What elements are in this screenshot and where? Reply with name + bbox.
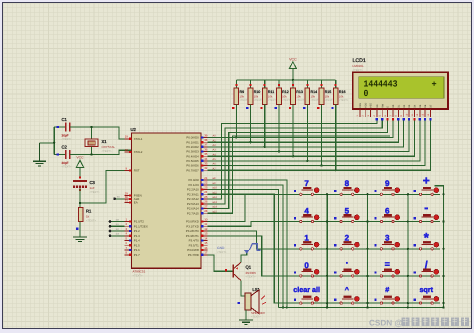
svg-text:<TEXT>: <TEXT> (217, 251, 227, 254)
svg-text:EA: EA (134, 201, 138, 205)
wire (109, 233, 125, 238)
resistor R15 (317, 80, 334, 110)
capacitor C2 (57, 145, 72, 169)
svg-text:23: 23 (204, 185, 208, 189)
svg-text:1: 1 (304, 234, 309, 243)
capacitor C3 (73, 177, 100, 194)
svg-text:17: 17 (204, 251, 208, 255)
wire (397, 118, 399, 120)
node A14 (213, 206, 218, 209)
svg-text:10: 10 (204, 217, 208, 221)
svg-text:A0: A0 (213, 135, 217, 138)
button ^ (333, 285, 361, 304)
node A0 (213, 135, 217, 138)
wire (79, 167, 81, 178)
wire (column 4) (435, 186, 445, 309)
wire (381, 118, 383, 120)
svg-text:2: 2 (345, 234, 350, 243)
pin P3.0 (10) (186, 217, 208, 223)
svg-text:a15: a15 (213, 210, 218, 213)
svg-text:RST: RST (134, 169, 140, 173)
svg-text:22: 22 (204, 181, 208, 185)
svg-text:GND: GND (217, 246, 225, 250)
svg-text:P3.4/T0: P3.4/T0 (189, 239, 200, 243)
svg-text:P1.0/T2: P1.0/T2 (134, 220, 145, 224)
wire (109, 218, 125, 223)
resistor R11 (260, 80, 277, 110)
svg-text:2N3905: 2N3905 (246, 271, 257, 275)
svg-text:<TEXT>: <TEXT> (62, 138, 72, 141)
svg-text:=: = (385, 259, 390, 269)
op-amp U2 (MCU AT89C51 body) (131, 127, 202, 277)
node A12 (213, 196, 218, 199)
node A4 (213, 153, 217, 156)
svg-text:<TEXT>: <TEXT> (90, 191, 100, 194)
svg-text:21: 21 (204, 176, 208, 180)
svg-text:clear all: clear all (293, 285, 320, 294)
svg-text:P3.6/WR: P3.6/WR (187, 248, 199, 252)
svg-text:+: + (423, 173, 430, 187)
svg-text:25: 25 (204, 195, 208, 199)
resistor R16 (331, 80, 348, 110)
button / (412, 260, 440, 277)
wire (row 3) (208, 231, 441, 249)
svg-text:A5: A5 (213, 158, 217, 161)
svg-text:10k: 10k (268, 94, 273, 98)
pin P2.6 (27) (187, 204, 208, 210)
svg-text:P2.7/A15: P2.7/A15 (187, 211, 199, 215)
svg-text:32: 32 (204, 166, 208, 170)
wire (245, 310, 247, 320)
svg-text:11: 11 (204, 222, 207, 226)
svg-text:10k: 10k (296, 94, 301, 98)
button 4 (292, 206, 320, 222)
svg-text:U2: U2 (131, 127, 137, 132)
pin P3.6 (16) (187, 246, 208, 252)
LCD LCD1 (LM016L) (353, 58, 449, 117)
wire (column) (366, 193, 368, 309)
svg-text:P3.2/INT0: P3.2/INT0 (186, 229, 199, 233)
resistor R12 (275, 80, 292, 110)
wire (369, 318, 469, 328)
svg-text:C3: C3 (90, 180, 96, 185)
wire (419, 118, 421, 120)
pin P1.1 (2) (125, 222, 148, 228)
svg-text:10k: 10k (339, 94, 344, 98)
pin P0.3 (36) (186, 147, 207, 153)
node A6 (213, 163, 217, 166)
resistor R13 (289, 80, 306, 110)
wire (P0.5 bus) (208, 121, 420, 161)
wire (386, 118, 388, 120)
wire (113, 196, 131, 201)
svg-text:10k: 10k (282, 94, 287, 98)
wire (424, 118, 426, 120)
svg-text:10k: 10k (240, 94, 245, 98)
wire (403, 118, 405, 120)
node RST (79, 171, 132, 205)
svg-text:3: 3 (385, 234, 390, 243)
svg-text:VSS: VSS (359, 103, 362, 108)
wire (0, 0, 1, 1)
wire (LCD control) (208, 121, 388, 209)
svg-text:P1.2: P1.2 (134, 229, 140, 233)
wire (collector) (241, 280, 245, 296)
pin XTAL1 (19) (125, 135, 143, 141)
node A8 (213, 177, 216, 180)
wire (LCD control) (208, 121, 383, 204)
wire (236, 79, 335, 81)
wire (column feed P2.1) (208, 185, 285, 309)
wire (53, 127, 55, 155)
svg-text:VEE: VEE (370, 103, 373, 108)
svg-text:+: + (432, 80, 437, 90)
pin P1.7 (8) (125, 251, 141, 257)
pin RST (9) (125, 166, 140, 172)
wire (P0.7 bus) (208, 121, 431, 171)
node A2 (213, 144, 217, 147)
svg-text:VDD: VDD (364, 102, 367, 107)
svg-text:10k: 10k (325, 94, 330, 98)
svg-text:VCC: VCC (76, 156, 84, 160)
svg-text:18: 18 (125, 148, 129, 152)
wire (76, 222, 80, 237)
wire (278, 110, 280, 153)
wire (90, 147, 92, 156)
svg-text:8: 8 (345, 179, 350, 188)
pin P1.3 (4) (125, 232, 141, 238)
button 6 (373, 206, 401, 222)
svg-text:<TEXT>: <TEXT> (133, 275, 143, 278)
pin PSEN (29) (125, 191, 142, 197)
node A11 (213, 191, 218, 194)
svg-text:12: 12 (204, 227, 208, 231)
pin P1.2 (3) (125, 227, 141, 233)
svg-text:30pF: 30pF (62, 161, 69, 165)
node A9 (213, 182, 216, 185)
svg-text:P2.0/A8: P2.0/A8 (189, 178, 200, 182)
svg-text:-: - (424, 201, 428, 215)
svg-text:31: 31 (125, 198, 129, 202)
svg-text:RS: RS (376, 104, 379, 108)
pin ALE (30) (125, 195, 140, 201)
svg-text:a13: a13 (213, 201, 218, 204)
svg-text:A4: A4 (213, 153, 217, 156)
ground (239, 320, 253, 324)
svg-text:A3: A3 (213, 149, 217, 152)
wire (P0.4 bus) (208, 121, 415, 157)
svg-text:<TEXT>: <TEXT> (62, 166, 72, 169)
svg-text:P0.0/AD0: P0.0/AD0 (186, 136, 199, 140)
svg-text:R1: R1 (86, 209, 92, 214)
resistor R10 (246, 80, 263, 110)
svg-text:SPEAKER: SPEAKER (251, 311, 265, 315)
node A5 (213, 158, 217, 161)
node A3 (213, 149, 217, 152)
svg-text:P1.4: P1.4 (134, 239, 140, 243)
wire (column) (407, 193, 409, 309)
svg-text:7: 7 (304, 179, 309, 188)
pin P0.6 (33) (186, 161, 207, 167)
pin P3.3 (13) (186, 232, 208, 238)
pin P0.1 (38) (186, 138, 207, 144)
pin P0.7 (32) (186, 166, 207, 172)
svg-text:P2.6/A14: P2.6/A14 (187, 207, 199, 211)
wire (emitter) (241, 251, 247, 262)
svg-text:P2.5/A13: P2.5/A13 (187, 202, 199, 206)
svg-text:39: 39 (204, 133, 208, 137)
node A7 (213, 167, 217, 170)
svg-text:X1: X1 (102, 139, 108, 144)
svg-text:P2.2/A10: P2.2/A10 (187, 188, 199, 192)
pin P0.0 (39) (186, 133, 207, 139)
node A15 (213, 210, 218, 213)
svg-text:36: 36 (204, 147, 208, 151)
resistor R14 (303, 80, 320, 110)
svg-text:P0.5/AD5: P0.5/AD5 (186, 159, 199, 163)
svg-text:A6: A6 (213, 163, 217, 166)
svg-text:Q1: Q1 (246, 264, 252, 269)
pin P1.6 (7) (125, 246, 141, 252)
svg-text:a14: a14 (213, 206, 218, 209)
pin P0.2 (37) (186, 143, 207, 149)
transistor Q1 (232, 262, 256, 280)
pin EA (31) (125, 198, 138, 204)
wire (54, 126, 65, 128)
svg-text:16: 16 (204, 246, 208, 250)
svg-text:CRYSTAL: CRYSTAL (102, 145, 116, 149)
svg-text:15: 15 (204, 241, 208, 245)
svg-text:a12: a12 (213, 196, 218, 199)
node A10 (213, 187, 218, 190)
button 8 (333, 179, 361, 195)
button 1 (292, 234, 320, 250)
svg-text:10k: 10k (254, 94, 259, 98)
svg-text:P1.7: P1.7 (134, 253, 140, 257)
wire (P0.6 bus) (208, 121, 426, 166)
button 3 (373, 234, 401, 250)
pin P2.3 (24) (187, 190, 208, 196)
svg-text:C1: C1 (62, 117, 68, 122)
svg-text:P1.3: P1.3 (134, 234, 140, 238)
svg-text:37: 37 (204, 143, 208, 147)
svg-text:19: 19 (125, 135, 129, 139)
svg-text:XTAL1: XTAL1 (134, 137, 143, 141)
svg-text:LM016L: LM016L (353, 64, 364, 68)
svg-text:38: 38 (204, 138, 208, 142)
svg-text:30pF: 30pF (62, 133, 69, 137)
svg-text:P0.4/AD4: P0.4/AD4 (186, 154, 199, 158)
pin P1.4 (5) (125, 236, 141, 242)
svg-text:P3.0/RXD: P3.0/RXD (186, 220, 199, 224)
svg-text:34: 34 (204, 157, 208, 161)
pin P3.5 (15) (189, 241, 208, 247)
svg-text:P0.1/AD1: P0.1/AD1 (186, 140, 199, 144)
button 2 (333, 234, 361, 250)
wire (base) (208, 255, 233, 272)
svg-text:<TEXT>: <TEXT> (353, 69, 363, 72)
wire (79, 188, 81, 208)
svg-text:1uF: 1uF (90, 186, 95, 190)
svg-text:35: 35 (204, 152, 208, 156)
svg-text:P0.6/AD6: P0.6/AD6 (186, 164, 199, 168)
pin P2.1 (22) (189, 181, 208, 187)
wire (P0.3 bus) (208, 121, 410, 152)
pin P2.4 (25) (187, 195, 208, 201)
node A13 (213, 201, 218, 204)
svg-text:10k: 10k (311, 94, 316, 98)
button * (412, 230, 440, 250)
pin P2.5 (26) (187, 200, 208, 206)
ground (33, 143, 46, 166)
svg-text:0: 0 (364, 88, 369, 99)
wire (row 1) (208, 194, 441, 221)
svg-text:4: 4 (304, 206, 309, 215)
wire (292, 110, 294, 158)
wire (335, 110, 337, 172)
wire (208, 136, 391, 213)
wire (bottom rail) (279, 307, 444, 309)
wire (row 2) (208, 222, 441, 227)
svg-text:24: 24 (204, 190, 208, 194)
resistor R9 (232, 80, 249, 110)
wire (429, 118, 431, 120)
svg-text:sqrt: sqrt (420, 285, 434, 294)
wire (P0.0 bus) (208, 121, 393, 138)
wire (320, 110, 322, 167)
pin P0.5 (34) (186, 157, 207, 163)
power VCC (289, 58, 297, 69)
power VCC (76, 156, 84, 168)
wire (LCD control) (208, 121, 377, 200)
svg-text:<TEXT>: <TEXT> (246, 276, 256, 279)
pin P3.2 (12) (186, 227, 208, 233)
svg-text:/: / (425, 260, 428, 271)
wire (P0.1 bus) (208, 121, 399, 143)
svg-text:<TEXT>: <TEXT> (251, 315, 261, 318)
svg-text:14: 14 (204, 236, 208, 240)
svg-text:A7: A7 (213, 167, 217, 170)
capacitor C1 (57, 117, 72, 141)
svg-text:27: 27 (204, 204, 208, 208)
probe GND (pulse marker) (217, 244, 261, 254)
svg-text:P1.1/T2EX: P1.1/T2EX (134, 224, 148, 228)
resistor R1 (78, 208, 96, 223)
pin P1.0 (1) (125, 217, 145, 223)
svg-text:P0.7/AD7: P0.7/AD7 (186, 168, 199, 172)
svg-text:P2.4/A12: P2.4/A12 (187, 197, 199, 201)
pin P2.7 (28) (187, 209, 208, 215)
svg-text:26: 26 (204, 200, 208, 204)
svg-text:28: 28 (204, 209, 208, 213)
button 0 (292, 261, 320, 277)
pin P0.4 (35) (186, 152, 207, 158)
svg-text:1444443: 1444443 (364, 79, 398, 90)
wire (408, 118, 410, 120)
button - (412, 201, 440, 223)
wire (392, 118, 394, 120)
svg-text:P0.3/AD3: P0.3/AD3 (186, 150, 199, 154)
wire (109, 228, 125, 233)
wire (376, 118, 378, 120)
pin P3.7 (17) (188, 251, 208, 257)
svg-text:CSDN @: CSDN @ (369, 319, 402, 328)
svg-text:P2.3/A11: P2.3/A11 (187, 192, 199, 196)
wire (264, 110, 266, 149)
pin P2.0 (21) (189, 176, 208, 182)
wire (column) (326, 193, 328, 309)
svg-text:VCC: VCC (289, 58, 297, 62)
svg-text:AT89C51: AT89C51 (133, 270, 146, 274)
wire (249, 110, 251, 144)
wire (row 5) (208, 194, 441, 303)
wire (70, 127, 132, 139)
svg-text:XTAL2: XTAL2 (134, 150, 143, 154)
svg-text:P0.2/AD2: P0.2/AD2 (186, 145, 199, 149)
wire (row 4) (208, 236, 441, 276)
wire (40, 142, 56, 144)
pin P3.4 (14) (189, 236, 208, 242)
svg-text:0: 0 (304, 261, 309, 270)
svg-text:P3.1/TXD: P3.1/TXD (186, 224, 199, 228)
svg-text:P2.1/A9: P2.1/A9 (189, 183, 200, 187)
crystal X1 (85, 139, 115, 153)
wire (292, 69, 294, 80)
pin P3.1 (11) (186, 222, 207, 228)
svg-text:33: 33 (204, 161, 208, 165)
pin P1.5 (6) (125, 241, 141, 247)
wire (306, 110, 308, 163)
button 7 (292, 179, 320, 195)
wire (413, 118, 415, 120)
svg-text:P3.7/RD: P3.7/RD (188, 253, 199, 257)
svg-text:<TEXT>: <TEXT> (102, 150, 112, 153)
svg-text:P1.5: P1.5 (134, 243, 140, 247)
wire (column feed P2.2) (208, 190, 279, 308)
button sqrt (412, 285, 440, 304)
button = (373, 259, 401, 277)
svg-text:P3.3/INT1: P3.3/INT1 (186, 234, 199, 238)
wire (70, 150, 132, 154)
svg-text:C2: C2 (62, 145, 68, 150)
svg-text:P1.6: P1.6 (134, 248, 140, 252)
svg-text:1k: 1k (86, 215, 90, 219)
button # (373, 285, 401, 304)
node A1 (213, 139, 217, 142)
svg-text:<TEXT>: <TEXT> (86, 220, 96, 223)
svg-text:<TEXT>: <TEXT> (339, 99, 349, 102)
speaker LS1 (238, 287, 267, 318)
ground (73, 237, 87, 242)
button 9 (373, 179, 401, 195)
wire (column feed P2.0) (208, 180, 288, 309)
svg-text:5: 5 (345, 206, 350, 215)
wire (109, 223, 125, 227)
svg-text:6: 6 (385, 206, 390, 215)
button 5 (333, 206, 361, 222)
wire (54, 154, 65, 156)
button clear all (292, 285, 320, 304)
svg-text:9: 9 (385, 179, 390, 188)
pin P2.2 (23) (187, 185, 208, 191)
wire (P0.2 bus) (208, 121, 404, 147)
button + (412, 173, 440, 195)
button . (333, 261, 361, 277)
wire (235, 110, 237, 139)
wire (90, 126, 92, 139)
pin XTAL2 (18) (125, 148, 143, 154)
svg-text:A2: A2 (213, 144, 217, 147)
